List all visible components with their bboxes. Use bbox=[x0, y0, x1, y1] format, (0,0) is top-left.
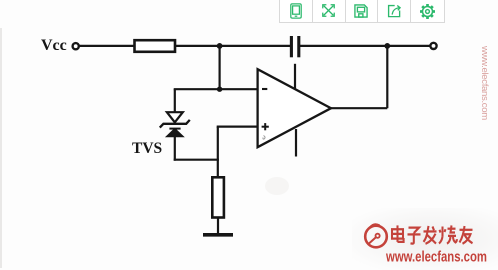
resistor R1 bbox=[135, 40, 176, 52]
CJK char 烧 bbox=[439, 225, 457, 243]
op-amp U1 triangle bbox=[258, 69, 331, 147]
wire R2 to ground bbox=[217, 218, 219, 235]
terminal Vcc (open circle) bbox=[73, 43, 79, 49]
CJK char 电 bbox=[392, 225, 404, 242]
node A (junction dot) bbox=[217, 43, 223, 49]
op-amp minus label bbox=[262, 88, 267, 90]
toolbar button: settings bbox=[411, 0, 444, 22]
wire non-inverting column down to R2 bbox=[217, 127, 219, 178]
wire node A down to inverting input bbox=[219, 46, 221, 89]
wire non-inverting input bbox=[217, 125, 258, 127]
TVS diode D1 lower bar bbox=[169, 128, 180, 130]
watermark backdrop wash bbox=[352, 208, 498, 270]
left edge scan streak bbox=[0, 28, 2, 268]
resistor R2 bbox=[212, 177, 224, 217]
toolbar bbox=[279, 0, 445, 23]
toolbar button: share bbox=[378, 0, 411, 22]
wire Vcc terminal to R1 bbox=[79, 45, 134, 47]
faint ghost smudge bbox=[265, 177, 289, 195]
terminal OUT (open circle) bbox=[430, 43, 436, 49]
stray mark under plus bbox=[263, 136, 265, 140]
wire C1 right plate to right terminal bbox=[300, 45, 430, 47]
op-amp V- pin bbox=[295, 129, 297, 157]
watermark logo elecfans bbox=[360, 220, 498, 270]
CJK char 发 bbox=[424, 226, 437, 244]
TVS diode D1 zener bar bbox=[160, 120, 190, 128]
wire feedback vertical to node B bbox=[386, 46, 388, 108]
wire TVS bottom lead bbox=[174, 136, 176, 161]
wire inverting input (TVS top to op-amp) bbox=[174, 88, 258, 90]
toolbar button: mobile preview bbox=[280, 0, 313, 22]
capacitor C1 bbox=[291, 36, 298, 57]
wire R1 to capacitor C1 left plate bbox=[175, 45, 290, 47]
ground bbox=[203, 233, 233, 237]
CJK char 子 bbox=[408, 228, 421, 244]
label TVS bbox=[132, 140, 162, 158]
svg-text:www.elecfans.com: www.elecfans.com bbox=[385, 250, 487, 266]
label Vcc bbox=[41, 37, 67, 55]
node B (junction dot) bbox=[384, 43, 390, 49]
wire op-amp output bbox=[331, 107, 387, 109]
op-amp plus label bbox=[262, 123, 269, 130]
CJK char 友 bbox=[460, 226, 473, 244]
watermark vertical www.elecfans.com bbox=[480, 46, 490, 120]
wire TVS bottom to R2 column bbox=[174, 159, 219, 161]
wire TVS top lead bbox=[174, 89, 176, 112]
node C (junction dot at inverting wire) bbox=[217, 87, 222, 92]
op-amp V+ pin bbox=[294, 64, 296, 90]
toolbar button: save bbox=[346, 0, 379, 22]
TVS diode D1 bottom triangle bbox=[167, 129, 183, 137]
toolbar button: fullscreen bbox=[313, 0, 346, 22]
TVS diode D1 top triangle bbox=[167, 112, 183, 122]
